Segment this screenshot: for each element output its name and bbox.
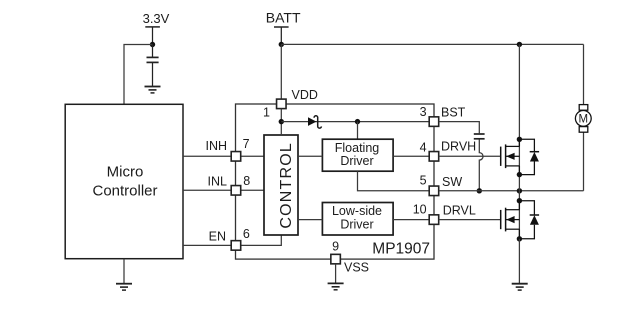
svg-text:SW: SW bbox=[442, 175, 462, 189]
node Q1 drain junction bbox=[517, 137, 522, 142]
svg-text:7: 7 bbox=[243, 137, 250, 151]
svg-text:3.3V: 3.3V bbox=[143, 11, 170, 26]
power BATT bar bbox=[274, 26, 289, 28]
pin 8 box bbox=[231, 186, 241, 196]
svg-text:VDD: VDD bbox=[292, 88, 318, 102]
svg-text:VSS: VSS bbox=[344, 261, 369, 275]
wire pin7 to CONTROL bbox=[241, 155, 264, 157]
power 3.3V bar bbox=[145, 26, 160, 28]
svg-text:Controller: Controller bbox=[92, 183, 157, 200]
node diode-floating junction bbox=[355, 119, 360, 124]
wire INL bbox=[183, 189, 231, 191]
svg-text:Micro: Micro bbox=[107, 163, 144, 180]
svg-text:BST: BST bbox=[441, 106, 466, 120]
wire BATT stem bbox=[280, 27, 282, 44]
wire floating driver to SW bbox=[358, 171, 430, 191]
wire EN bbox=[183, 244, 231, 246]
microcontroller U2 box bbox=[65, 104, 183, 258]
svg-text:DRVH: DRVH bbox=[441, 140, 476, 154]
svg-text:3: 3 bbox=[420, 105, 427, 119]
svg-text:M: M bbox=[579, 114, 589, 126]
svg-text:Floating: Floating bbox=[335, 141, 380, 155]
wire pin6 to CONTROL bbox=[241, 235, 281, 245]
svg-text:DRVL: DRVL bbox=[443, 204, 476, 218]
svg-text:BATT: BATT bbox=[266, 10, 301, 26]
svg-text:EN: EN bbox=[209, 229, 226, 243]
diode D1 bootstrap bbox=[308, 116, 321, 128]
svg-text:4: 4 bbox=[420, 141, 427, 155]
wire BATT to motor bbox=[583, 44, 585, 104]
node BATT drain junction bbox=[517, 42, 522, 47]
transistor Q1 high-side NMOS bbox=[501, 139, 520, 174]
ground below microcontroller bbox=[116, 284, 132, 290]
pin 7 box bbox=[231, 152, 241, 162]
wire cap to SW with hop over DRVH bbox=[479, 140, 483, 191]
wire INH bbox=[183, 155, 231, 157]
wire BATT rail bbox=[281, 43, 583, 45]
svg-text:9: 9 bbox=[332, 240, 339, 254]
wire DRVH to Q1 gate bbox=[439, 155, 500, 157]
ground below C1 bbox=[145, 87, 161, 93]
wire microcontroller ground stub bbox=[123, 259, 125, 284]
svg-text:Driver: Driver bbox=[340, 154, 373, 168]
pin 6 box bbox=[231, 241, 241, 251]
svg-text:CONTROL: CONTROL bbox=[278, 142, 295, 229]
svg-text:1: 1 bbox=[263, 106, 270, 120]
wire DRVL to Q2 gate bbox=[439, 219, 500, 221]
wire drain rail low-side bbox=[518, 191, 520, 239]
node 3.3V junction bbox=[150, 42, 155, 47]
wire pin1 to CONTROL bbox=[280, 109, 282, 135]
svg-text:Driver: Driver bbox=[340, 218, 373, 232]
node Q2 drain junction bbox=[517, 198, 522, 203]
wire motor return bbox=[583, 132, 585, 191]
svg-text:10: 10 bbox=[413, 202, 427, 216]
wire junction to floating driver bbox=[357, 122, 359, 140]
svg-text:Low-side: Low-side bbox=[332, 204, 382, 218]
svg-text:6: 6 bbox=[243, 227, 250, 241]
wire 3.3V to microcontroller bbox=[124, 45, 153, 105]
wire VDD drop bbox=[280, 44, 282, 99]
node cap-SW junction bbox=[477, 188, 482, 193]
node SW-mosfet junction bbox=[517, 188, 522, 193]
svg-text:INL: INL bbox=[208, 175, 228, 189]
capacitor C2 bootstrap bbox=[474, 134, 485, 139]
wire floating driver to pin4 bbox=[393, 155, 429, 157]
svg-text:8: 8 bbox=[243, 174, 250, 188]
wire bootstrap diode line bbox=[281, 121, 429, 123]
wire VSS ground stub bbox=[335, 264, 337, 283]
ground below VSS bbox=[328, 283, 344, 289]
wire CONTROL to floating driver bbox=[298, 155, 322, 157]
diode D3 body of Q2 bbox=[519, 201, 539, 239]
wire pin8 to CONTROL bbox=[241, 189, 264, 191]
pin 1 box bbox=[277, 99, 287, 109]
node Q2 source junction bbox=[517, 236, 522, 241]
wire CONTROL to low-side driver bbox=[298, 219, 322, 221]
motor M1 bbox=[575, 105, 591, 133]
node BATT junction bbox=[279, 42, 284, 47]
diode D2 body of Q1 bbox=[519, 139, 539, 174]
node VDD-diode junction bbox=[279, 119, 284, 124]
floating driver block bbox=[322, 139, 393, 171]
pin 3 box bbox=[429, 117, 439, 127]
pin 5 box bbox=[429, 186, 439, 196]
pin 9 box bbox=[331, 254, 341, 264]
ground below Q2 bbox=[512, 284, 528, 290]
pin 10 box bbox=[429, 215, 439, 225]
wire low-side driver to pin10 bbox=[393, 219, 429, 221]
wire BST from pin3 to cap bbox=[439, 122, 480, 134]
low-side driver block bbox=[322, 203, 393, 236]
svg-text:MP1907: MP1907 bbox=[372, 240, 430, 257]
pin 4 box bbox=[429, 152, 439, 162]
wire drain rail high-side bbox=[518, 44, 520, 190]
node Q1 source junction bbox=[517, 172, 522, 177]
capacitor C1 bbox=[147, 45, 159, 87]
wire 3.3V stem bbox=[152, 27, 154, 45]
MP1907 U1 outline bbox=[236, 104, 435, 259]
wire SW line bbox=[439, 190, 584, 192]
wire Q2 source to ground bbox=[518, 239, 520, 283]
svg-text:5: 5 bbox=[420, 174, 427, 188]
control block bbox=[264, 135, 298, 235]
transistor Q2 low-side NMOS bbox=[501, 201, 520, 239]
svg-text:INH: INH bbox=[205, 139, 227, 153]
